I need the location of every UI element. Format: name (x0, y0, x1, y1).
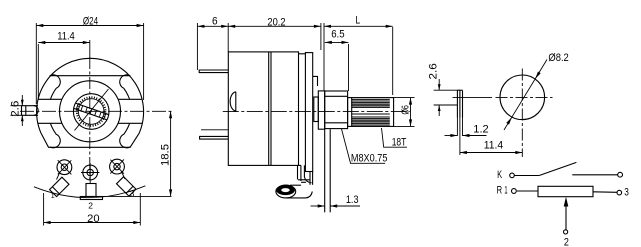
dim 1.2 (445, 123, 489, 137)
svg-text:L: L (355, 15, 360, 27)
svg-text:2: 2 (88, 200, 93, 210)
bottom lip (299, 164, 302, 166)
knurled shaft outer circle (73, 94, 109, 130)
hub circle (60, 81, 121, 142)
plate step (313, 76, 318, 86)
web 3 o'clock (118, 98, 142, 100)
kidney cutout SW (50, 123, 60, 147)
body seam (268, 52, 270, 165)
shaft teeth ring 18T (77, 97, 106, 126)
body outer circle Ø24 (cut at bottom flat) (37, 58, 144, 133)
mounting bracket leg (298, 165, 313, 184)
inner plate block (314, 97, 319, 122)
svg-text:2.6: 2.6 (9, 101, 21, 117)
resistor terminal 3 (617, 190, 622, 195)
shaft centerline (side) (223, 111, 410, 113)
slot hatching (76, 104, 105, 118)
svg-text:6.5: 6.5 (331, 29, 344, 41)
svg-text:1.2: 1.2 (473, 123, 488, 135)
tab slot (457, 90, 462, 117)
horizontal centerline (20, 110, 172, 112)
svg-text:11.4: 11.4 (57, 31, 75, 43)
svg-text:K: K (497, 169, 502, 181)
svg-text:18T: 18T (392, 136, 407, 148)
diagonal centerline of slot (75, 89, 109, 131)
svg-text:Ø8.2: Ø8.2 (548, 52, 568, 64)
web 9 o'clock (38, 98, 62, 100)
left rivet bump (230, 92, 236, 111)
kidney cutout NW (50, 75, 60, 99)
terminal middle hidden line (side) (201, 129, 228, 131)
terminal eyelet 3 (110, 159, 125, 179)
wire switch left (515, 175, 540, 177)
bracket foot with eyelet (276, 185, 312, 198)
cover plate (305, 53, 312, 172)
switch arm (539, 162, 576, 175)
svg-text:11.4: 11.4 (484, 139, 503, 151)
dim 6.5 (325, 29, 349, 91)
svg-text:20: 20 (87, 213, 99, 225)
bottom flat with chamfers (41, 133, 139, 147)
wiper terminal 2 (564, 230, 568, 234)
vertical centerline (89, 57, 91, 180)
switch terminal right (618, 172, 623, 177)
dim 2.6 (slot) (428, 63, 458, 116)
dim L (324, 15, 393, 96)
label 18T with leader (382, 128, 408, 148)
screwdriver slot lines (75, 103, 109, 115)
terminal eyelet 1 (57, 160, 72, 180)
hole centerline horizontal (453, 96, 493, 98)
dim 20 (44, 193, 141, 226)
svg-text:R: R (497, 185, 503, 197)
wire switch right (572, 174, 617, 176)
svg-text:20.2: 20.2 (267, 17, 285, 29)
top lip (299, 53, 306, 55)
svg-text:Ø6: Ø6 (400, 105, 411, 115)
lug terminal 1 (angled left) (50, 177, 69, 196)
anti-rotation tab (left) (22, 106, 39, 116)
dim 11.4 (front) (38, 31, 90, 100)
dim 18.5 (103, 111, 173, 196)
threaded bushing M8 (325, 91, 348, 129)
svg-text:2: 2 (564, 236, 569, 247)
svg-text:6: 6 (212, 15, 218, 27)
leader Ø8.2 (504, 52, 569, 130)
lug terminal 2 (center) (86, 184, 96, 197)
dim 20.2 (228, 17, 321, 51)
dim 2.6 (front tab) (9, 95, 23, 126)
svg-text:M8X0.75: M8X0.75 (351, 152, 388, 164)
wire resistor right (593, 191, 617, 194)
shaft inner circle (78, 99, 104, 125)
wiper arrow (565, 202, 567, 230)
label M8X0.75 with leader (342, 129, 388, 164)
kidney cutout SE (120, 123, 130, 147)
dim 11.4 (panel) (460, 139, 522, 154)
resistor terminal 1 (512, 189, 517, 194)
svg-text:1: 1 (504, 185, 507, 197)
svg-text:3: 3 (130, 190, 135, 199)
dim Ø6 (394, 98, 415, 127)
seating arc through lugs (34, 186, 145, 198)
dim Ø24 (36, 16, 143, 104)
bushing flange (318, 91, 324, 129)
svg-text:3: 3 (624, 187, 629, 199)
knurled shaft (side) (348, 98, 394, 127)
switch terminal left (510, 173, 515, 178)
dim 1.3 (311, 194, 361, 208)
wire resistor left (517, 190, 538, 192)
terminal eyelet 2 (81, 163, 99, 183)
lug terminal 3 (angled right) (117, 177, 136, 196)
panel hole circle Ø8.2 (500, 75, 545, 120)
body rectangle (228, 52, 298, 165)
svg-text:1: 1 (51, 193, 55, 200)
mounting plate tab (1.3) (324, 129, 326, 212)
svg-text:18.5: 18.5 (159, 144, 171, 166)
hole centerline vertical (521, 69, 523, 158)
resistor element R (538, 186, 593, 196)
svg-text:Ø24: Ø24 (83, 16, 98, 28)
terminal stub upper (side) (199, 70, 228, 73)
svg-text:2.6: 2.6 (428, 63, 440, 79)
top chord (50, 75, 130, 77)
terminal stub lower (side) (200, 136, 229, 139)
svg-text:1.3: 1.3 (346, 194, 359, 206)
dim 6 (side) (197, 15, 228, 70)
kidney cutout NE (120, 75, 130, 99)
